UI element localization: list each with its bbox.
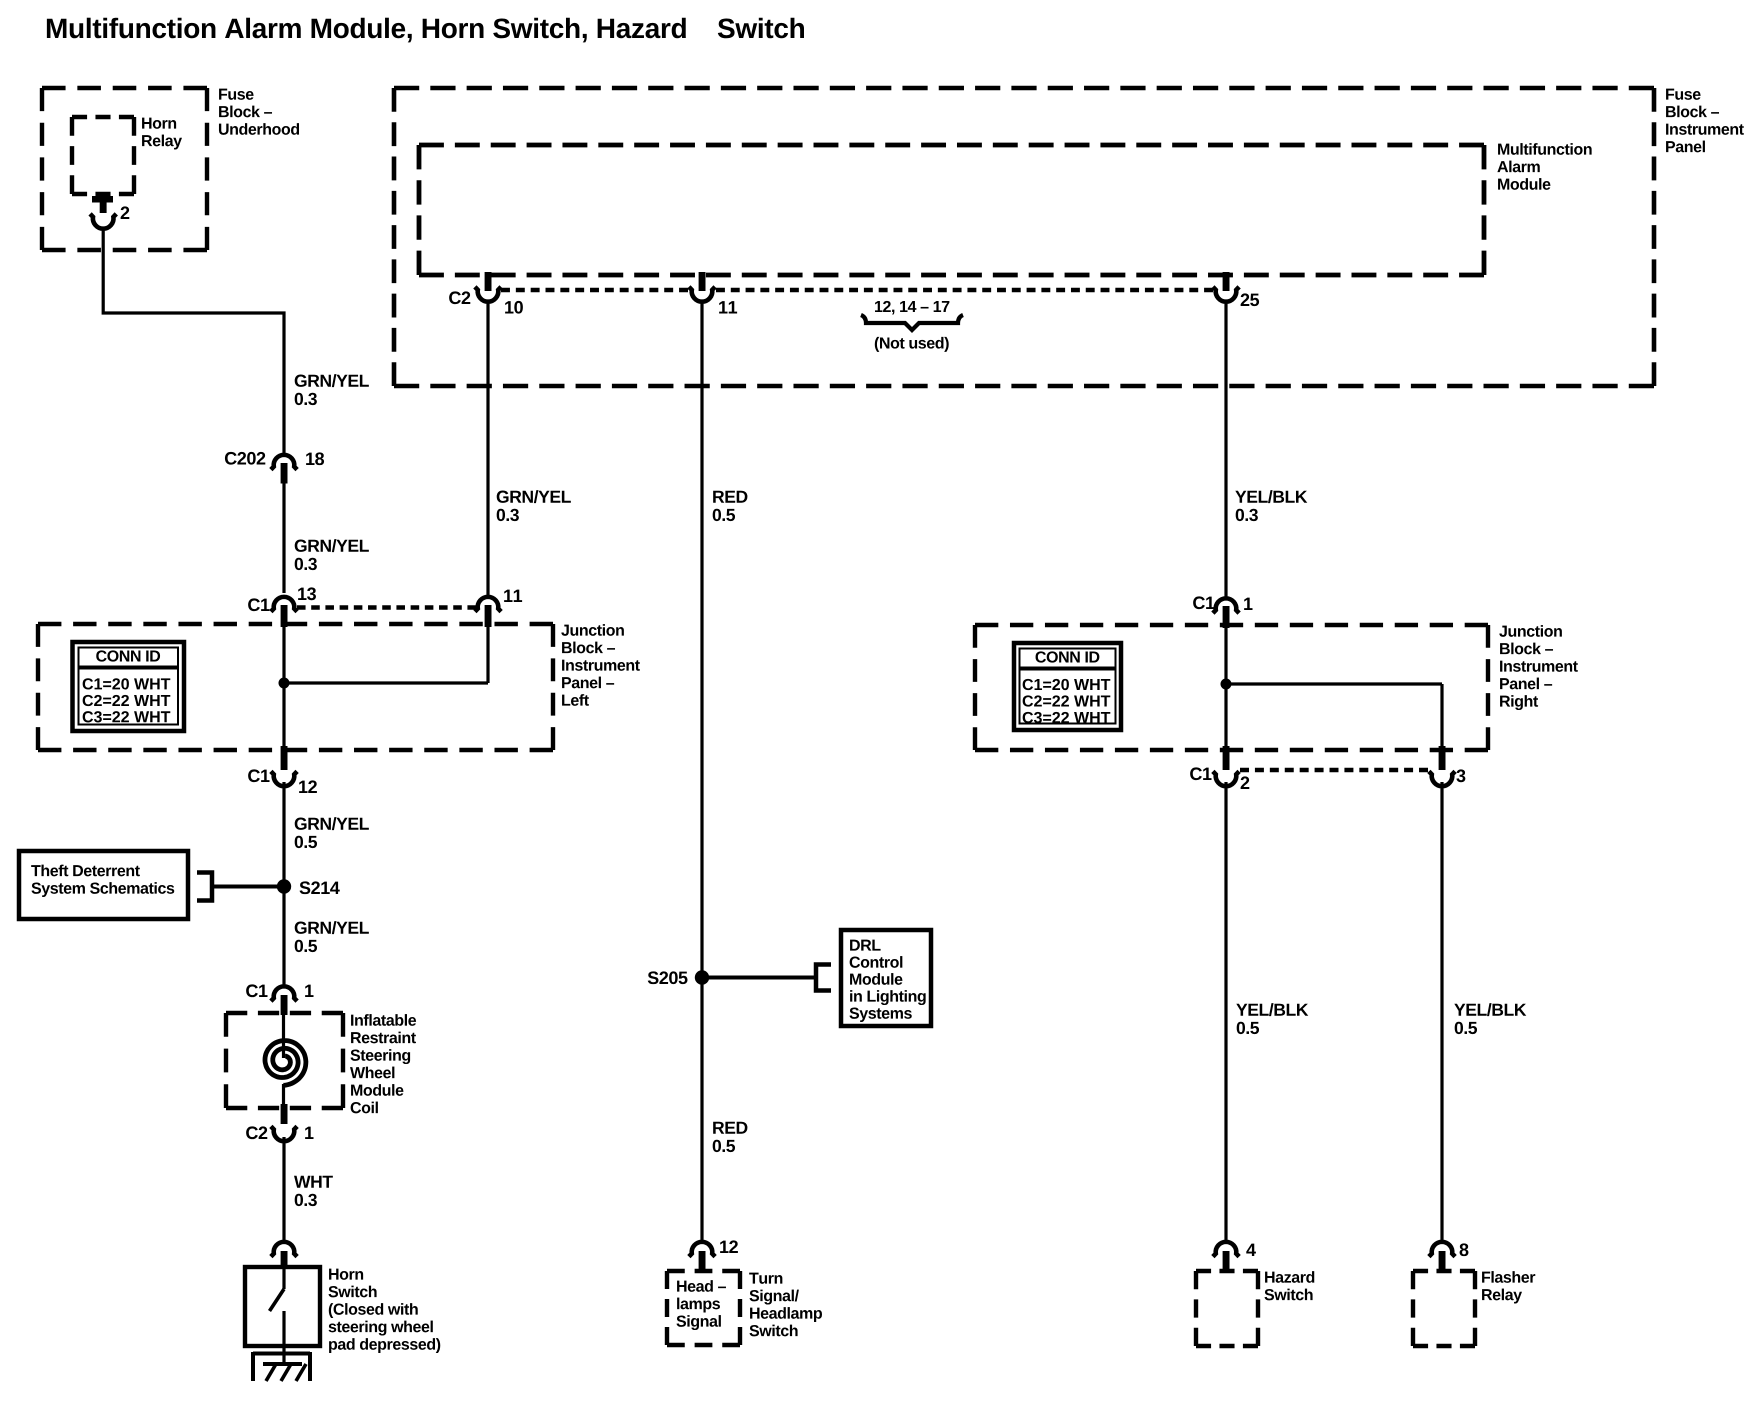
- wire label GRN/YEL 0.5 (a): [295, 817, 369, 848]
- connector 12 arc (headlamps): [689, 1242, 715, 1257]
- pin number 13 label: [298, 587, 316, 600]
- connector C1 pin 1 male pin (right): [1223, 606, 1230, 628]
- pin number 1 label (coil top): [305, 985, 313, 997]
- wire pin13 down to splice: [282, 624, 285, 683]
- splice S205: [695, 970, 709, 984]
- connector C2 designator: [449, 291, 470, 304]
- connector pin 3 female terminal: [1429, 771, 1455, 786]
- connector C1 pin 1 male pin: [281, 995, 288, 1015]
- connector pin 3 male pin: [1439, 746, 1446, 770]
- wire label GRN/YEL 0.3 (c): [497, 490, 571, 521]
- coil module label: [350, 1014, 416, 1113]
- junction node (left block): [279, 678, 290, 689]
- fuse block underhood box: [42, 88, 207, 250]
- wire into coil: [282, 1013, 285, 1058]
- wire pin11 down into block: [486, 624, 489, 683]
- dotted line pin2 to pin3: [1240, 768, 1428, 772]
- connector C2 pin 25 male pin: [1223, 272, 1230, 291]
- wire horizontal join in left junction block: [282, 681, 488, 684]
- pin number 11 label: [719, 301, 737, 313]
- junction block instrument panel right box: [975, 625, 1488, 750]
- connector 4 male pin: [1223, 1251, 1230, 1270]
- fuse block instrument panel label: [1666, 89, 1744, 153]
- wire label YEL/BLK 0.5 (a): [1236, 1003, 1308, 1034]
- connector C202 male pin: [281, 463, 288, 484]
- pin number 25 label: [1241, 293, 1259, 306]
- horn relay K? box: [72, 117, 134, 194]
- connector C1 pin 1 arc (coil): [271, 986, 297, 1001]
- wire junction to pin3: [1440, 684, 1443, 748]
- connector C1 pin 12 male pin: [281, 746, 288, 770]
- pin number 12 label (headlamps): [720, 1240, 738, 1253]
- not used pins label: [875, 301, 949, 315]
- ground (chassis): [253, 1352, 310, 1381]
- wire S205 to connector 12: [700, 978, 703, 1242]
- connector C2 pin 25 female terminal: [1213, 287, 1239, 302]
- head-lamps signal box: [667, 1271, 740, 1345]
- connector 8 male pin: [1439, 1251, 1446, 1270]
- pin number 4 label: [1246, 1244, 1256, 1256]
- connector C1 pin 13 male pin: [281, 605, 288, 627]
- splice S214 label: [300, 881, 340, 894]
- connector C202 designator: [225, 452, 265, 465]
- CONN ID table (left): [73, 642, 185, 731]
- connector C1-12 designator: [248, 769, 269, 782]
- connector C1 pin 11 male pin: [485, 605, 492, 627]
- wire C202 to C1-13: [282, 483, 285, 593]
- horn switch label: [328, 1269, 440, 1353]
- connector C1 pin 11 arc (junction block left): [475, 597, 501, 612]
- fuse block instrument panel box: [394, 88, 1654, 386]
- connector pin 2 female terminal: [90, 214, 116, 229]
- wire label RED 0.5 (a): [713, 491, 748, 521]
- wire pin12 to S214: [282, 782, 285, 881]
- horn switch contacts: [270, 1267, 285, 1364]
- inflatable restraint coil box: [226, 1013, 343, 1108]
- reference bracket (DRL): [816, 965, 831, 991]
- pin number 1 label (coil bottom): [305, 1127, 313, 1139]
- fuse block underhood label: [219, 89, 299, 135]
- wire C2-1 to horn switch: [282, 1137, 285, 1241]
- horn switch connector male pin: [281, 1251, 288, 1269]
- wire pin11 to S205: [700, 302, 703, 972]
- wire pin2 to C202: [103, 228, 284, 453]
- wire S214 to C1-1: [282, 886, 285, 986]
- wire pin25 to C1-1 right: [1224, 302, 1227, 598]
- connector C2-1 designator: [246, 1126, 267, 1139]
- dotted not-used bus line: [501, 288, 1213, 292]
- wire label YEL/BLK 0.3: [1235, 490, 1307, 521]
- wire pin2 to connector 4: [1224, 782, 1227, 1241]
- wire pin3 to connector 8: [1440, 782, 1443, 1241]
- pin number 11 label (junction block): [504, 590, 522, 602]
- CONN ID table (right): [1014, 643, 1121, 730]
- splice S214: [277, 879, 291, 893]
- wire junction to pin2: [1224, 684, 1227, 748]
- connector C2 pin 11 female terminal: [689, 287, 715, 302]
- coil spiral symbol: [265, 1041, 306, 1086]
- wire out of coil: [282, 1084, 285, 1106]
- connector C1 pin 12 female terminal: [271, 771, 297, 786]
- connector 4 arc (hazard switch): [1213, 1242, 1239, 1257]
- connector C2 pin 11 male pin: [699, 272, 706, 291]
- pin number 18 label: [306, 452, 324, 465]
- pin number 8 label: [1460, 1243, 1469, 1256]
- connector C1-13 designator: [248, 598, 269, 611]
- pin number 1 label (right junction): [1244, 598, 1252, 610]
- pin number 2 label: [121, 206, 130, 219]
- junction block left label: [561, 624, 640, 706]
- wire S205 to bracket: [702, 976, 816, 980]
- connector C1 pin 1 arc (right junction): [1213, 598, 1239, 613]
- DRL control module box: [841, 930, 931, 1026]
- connector C1 pin 2 female terminal: [1213, 771, 1239, 786]
- connector pin 2 male terminal: [92, 196, 113, 213]
- flasher relay label: [1482, 1271, 1535, 1303]
- wire label RED 0.5 (b): [713, 1122, 748, 1152]
- not used caption: [875, 337, 949, 352]
- splice S205 label: [648, 971, 688, 984]
- connector C2 pin 10 female terminal: [475, 287, 501, 302]
- dotted line pin13 to pin11: [297, 605, 476, 609]
- wire bracket to S214: [212, 885, 278, 889]
- wire label GRN/YEL 0.3 (b): [295, 539, 369, 570]
- connector C2 pin 1 male pin: [281, 1104, 288, 1124]
- horn switch connector arc: [271, 1242, 297, 1257]
- theft deterrent system schematics box: [19, 851, 188, 919]
- hazard switch label: [1264, 1271, 1314, 1300]
- connector C1 pin 2 male pin: [1223, 746, 1230, 770]
- connector C1-2 designator: [1190, 767, 1211, 780]
- wire label WHT 0.3: [294, 1176, 333, 1206]
- junction block instrument panel left box: [38, 624, 553, 750]
- junction block right label: [1499, 625, 1578, 710]
- pin number 3 label: [1456, 769, 1465, 782]
- connector C2 pin 1 female terminal: [271, 1126, 297, 1141]
- pin number 10 label: [505, 301, 523, 314]
- flasher relay box: [1413, 1271, 1475, 1346]
- wire label GRN/YEL 0.5 (b): [295, 921, 369, 952]
- turn signal headlamp switch label: [749, 1273, 822, 1337]
- wire pin10 to pin11 junction block: [486, 302, 489, 595]
- wire label YEL/BLK 0.5 (b): [1454, 1003, 1526, 1034]
- wire junction horizontal (right): [1226, 682, 1442, 685]
- horn switch box: [245, 1267, 320, 1346]
- connector C2 pin 10 male pin: [485, 272, 492, 291]
- pin number 2 label (right): [1241, 776, 1250, 789]
- hazard switch box: [1196, 1271, 1258, 1346]
- wire junction to pin12: [282, 683, 285, 748]
- pin number 12 label: [299, 780, 317, 793]
- connector 12 male pin: [699, 1251, 706, 1270]
- connector C1-1 designator (right): [1193, 596, 1214, 609]
- junction node (right block): [1221, 679, 1232, 690]
- multifunction alarm module label: [1497, 143, 1591, 190]
- wire C1-1 down to junction (right): [1224, 625, 1227, 684]
- wire label GRN/YEL 0.3 (a): [295, 374, 369, 405]
- connector C1 pin 13 arc: [271, 597, 297, 612]
- multifunction alarm module box: [419, 145, 1484, 275]
- connector C1-1 designator (coil): [246, 984, 267, 997]
- not used brace: [861, 315, 963, 330]
- connector 8 arc (flasher relay): [1429, 1242, 1455, 1257]
- reference bracket (theft): [197, 873, 212, 901]
- horn relay label: [142, 118, 182, 150]
- connector C202 female half: [271, 455, 297, 470]
- title text: [47, 18, 804, 43]
